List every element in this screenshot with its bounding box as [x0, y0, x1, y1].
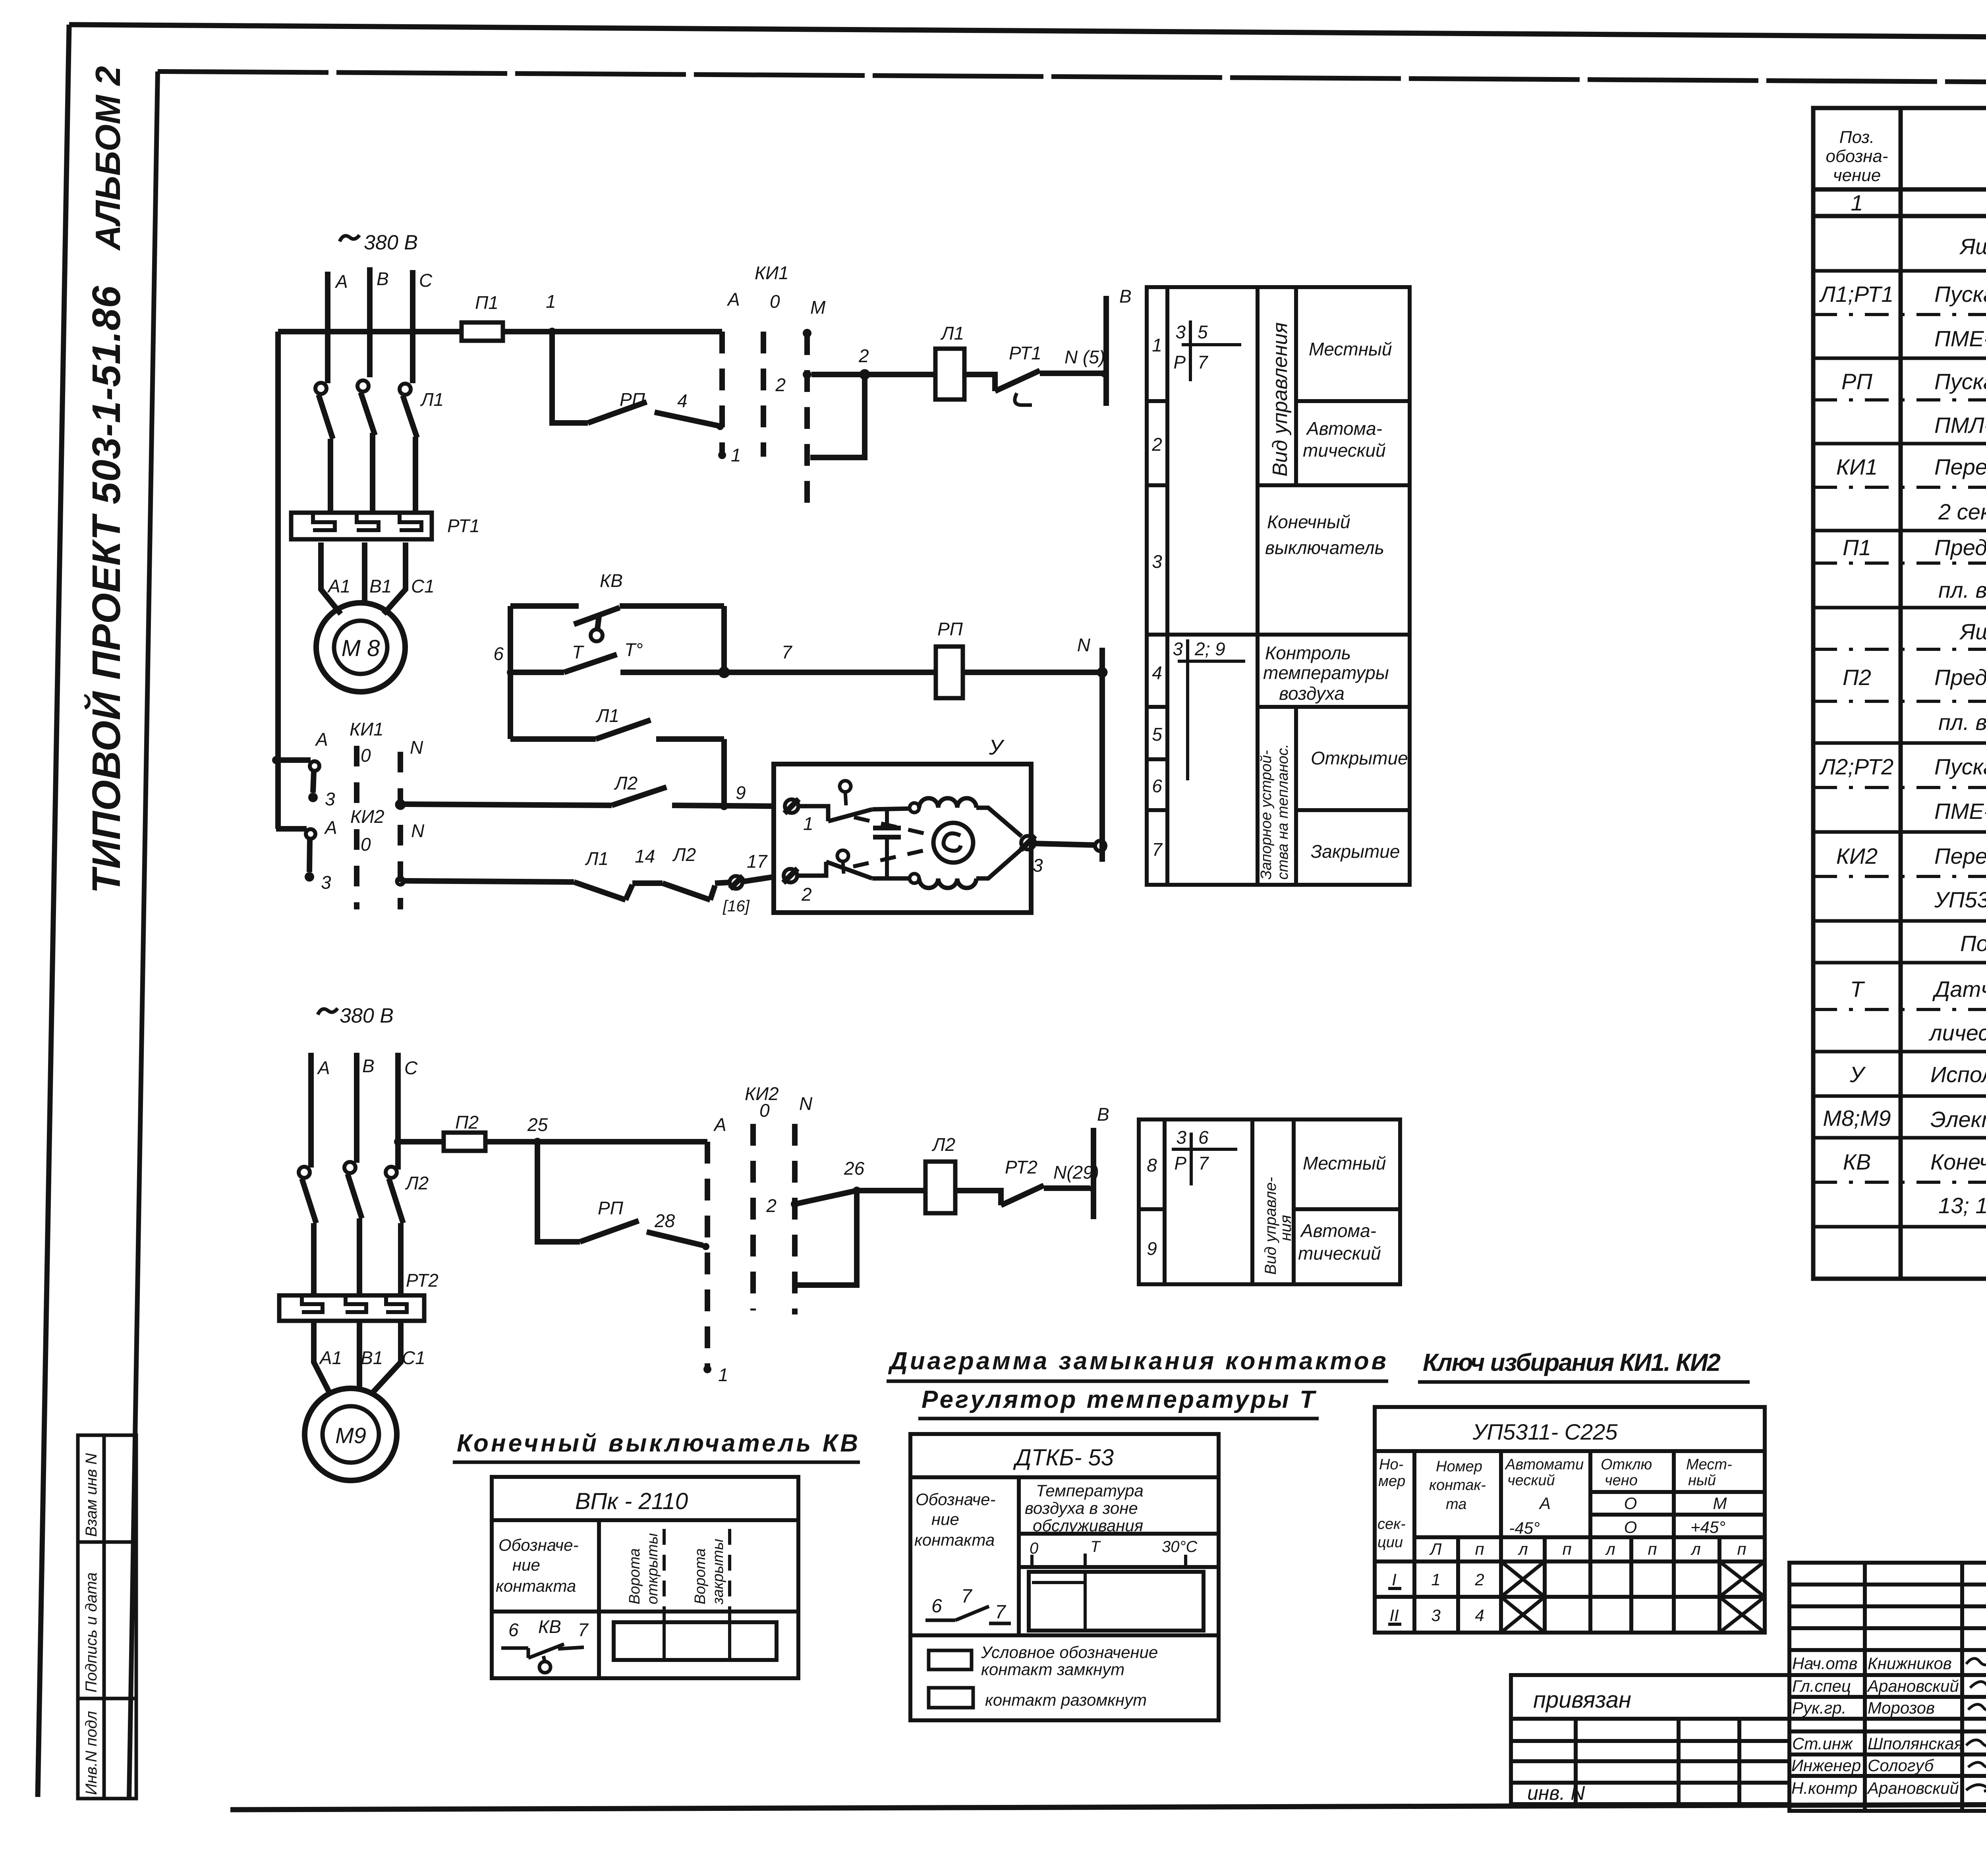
svg-text:контакта: контакта — [914, 1531, 995, 1549]
svg-text:Вид управления: Вид управления — [1269, 322, 1292, 477]
svg-text:Арановский: Арановский — [1866, 1779, 1959, 1797]
svg-text:Ворота: Ворота — [692, 1548, 709, 1604]
L1 coil — [935, 349, 964, 400]
node on C — [409, 328, 417, 336]
RP branch — [537, 1142, 580, 1242]
contactor L1 main contacts — [315, 383, 326, 394]
RT2 contact — [955, 1191, 1001, 1205]
svg-text:2: 2 — [1151, 434, 1162, 455]
X cells — [1501, 1561, 1765, 1633]
svg-text:7: 7 — [578, 1619, 589, 1640]
svg-text:Автома-: Автома- — [1300, 1220, 1376, 1241]
svg-text:Ящик управления 9Я (ЯУТ1-2): Ящик управления 9Я (ЯУТ1-2) — [1959, 619, 1986, 644]
svg-text:1: 1 — [718, 1365, 728, 1385]
svg-text:Нач.отв: Нач.отв — [1792, 1654, 1858, 1673]
svg-text:1: 1 — [731, 445, 741, 465]
svg-text:С1: С1 — [411, 576, 435, 596]
L1 aux contact row — [510, 736, 596, 742]
phase A (M9) — [308, 1053, 314, 1168]
svg-text:С1: С1 — [402, 1347, 425, 1368]
svg-text:Номер: Номер — [1436, 1458, 1482, 1475]
svg-text:Переключатель универсальный: Переключатель универсальный — [1934, 454, 1986, 479]
svg-text:В1: В1 — [361, 1347, 383, 1368]
svg-text:Переключатель универсальный: Переключатель универсальный — [1934, 843, 1986, 869]
svg-text:обозна-: обозна- — [1826, 147, 1888, 166]
svg-text:Т: Т — [572, 642, 584, 662]
svg-text:ТИПОВОЙ ПРОЕКТ 503-1-51.86: ТИПОВОЙ ПРОЕКТ 503-1-51.86 — [83, 286, 129, 894]
svg-text:Л1: Л1 — [420, 389, 444, 410]
svg-text:УП5311 - С225 2 секции: УП5311 - С225 2 секции — [1934, 887, 1986, 912]
svg-text:2; 9: 2; 9 — [1194, 639, 1225, 659]
svg-text:чено: чено — [1605, 1472, 1638, 1489]
svg-text:ный: ный — [1688, 1472, 1716, 1489]
svg-text:I: I — [1392, 1570, 1397, 1589]
svg-text:30°С: 30°С — [1162, 1538, 1198, 1556]
svg-text:Т°: Т° — [624, 639, 643, 660]
svg-text:Запорное устрой-: Запорное устрой- — [1258, 750, 1275, 880]
svg-text:А: А — [317, 1058, 330, 1078]
svg-text:У: У — [1849, 1062, 1866, 1087]
wire from U to N bus — [1035, 843, 1095, 845]
svg-text:Арановский: Арановский — [1866, 1677, 1959, 1695]
svg-text:7: 7 — [1152, 839, 1163, 860]
svg-text:7: 7 — [1198, 352, 1208, 372]
svg-text:Конечный: Конечный — [1267, 511, 1350, 532]
svg-text:В: В — [362, 1056, 375, 1076]
svg-text:А: А — [324, 817, 337, 838]
outer border left — [38, 25, 69, 1797]
svg-text:Конечный выключатель ВПК-211: Конечный выключатель ВПК-2110 — [1930, 1149, 1986, 1174]
wire: left feeder — [275, 332, 281, 829]
N dashed line — [792, 1124, 798, 1314]
svg-text:2: 2 — [766, 1195, 777, 1216]
svg-text:3: 3 — [1175, 322, 1186, 342]
svg-text:N(29): N(29) — [1053, 1162, 1099, 1183]
svg-text:КИ1: КИ1 — [1836, 454, 1878, 479]
svg-text:N: N — [799, 1093, 813, 1114]
svg-text:2 секции УП5311- С225: 2 секции УП5311- С225 — [1938, 499, 1986, 524]
svg-text:КВ: КВ — [538, 1616, 561, 1637]
svg-text:0: 0 — [361, 745, 371, 766]
svg-text:N: N — [1077, 635, 1091, 655]
svg-text:Т: Т — [1850, 977, 1865, 1002]
branch from node 2 down — [810, 378, 865, 457]
svg-text:М: М — [810, 297, 826, 318]
svg-text:6: 6 — [508, 1619, 519, 1640]
bottom contact row L1 14 L2 17 — [400, 881, 574, 882]
M dashed line — [804, 333, 810, 512]
svg-text:Л2: Л2 — [405, 1173, 429, 1193]
svg-text:14: 14 — [635, 846, 655, 867]
svg-text:ПМЕ-212 I н.т.р = 16 А кат.: ПМЕ-212 I н.т.р = 16 А кат. ~ 220 В — [1934, 326, 1986, 351]
svg-text:9: 9 — [736, 782, 746, 803]
svg-text:А: А — [726, 289, 740, 310]
svg-text:N: N — [411, 820, 425, 841]
L2 contact row — [400, 804, 612, 805]
svg-text:9: 9 — [1147, 1238, 1157, 1259]
svg-text:М 8: М 8 — [342, 635, 380, 661]
svg-text:ПМЕ-212 I н.т.р = 16 А кат.: ПМЕ-212 I н.т.р = 16 А кат. ~ 220 В. — [1934, 799, 1986, 824]
svg-text:380 В: 380 В — [340, 1004, 394, 1027]
svg-text:Л2: Л2 — [931, 1134, 955, 1155]
svg-text:А: А — [1538, 1494, 1551, 1513]
KV contact symbol — [508, 1616, 589, 1640]
svg-text:0: 0 — [1030, 1540, 1038, 1557]
svg-text:7: 7 — [1198, 1153, 1209, 1173]
svg-text:2: 2 — [1474, 1570, 1484, 1589]
selector KU2 — [276, 826, 307, 832]
svg-text:380 В: 380 В — [364, 231, 418, 254]
svg-text:В: В — [1097, 1104, 1109, 1125]
svg-text:II: II — [1389, 1606, 1399, 1625]
phase B — [367, 267, 373, 377]
svg-text:тический: тический — [1303, 440, 1386, 461]
svg-text:О: О — [1624, 1518, 1637, 1536]
svg-text:РТ1: РТ1 — [1009, 343, 1041, 363]
svg-text:Предохранитель ППТ-10 ~ 2: Предохранитель ППТ-10 ~ 250 В — [1934, 665, 1986, 690]
svg-text:Л1: Л1 — [595, 705, 619, 726]
svg-text:N (5): N (5) — [1064, 347, 1105, 367]
svg-text:та: та — [1446, 1496, 1466, 1513]
svg-text:Инв.N подл: Инв.N подл — [83, 1711, 100, 1795]
svg-text:1: 1 — [546, 291, 556, 312]
svg-text:Исполнительный механизм ПР-1: Исполнительный механизм ПР-1М — [1930, 1062, 1986, 1087]
wires to motor M9 — [314, 1321, 330, 1393]
svg-text:РТ2: РТ2 — [1005, 1157, 1037, 1177]
wire: bus to selector — [503, 329, 722, 334]
svg-text:закрыты: закрыты — [710, 1539, 726, 1605]
actuator box U — [774, 764, 1031, 913]
svg-text:1: 1 — [1152, 335, 1162, 355]
svg-text:1: 1 — [803, 813, 813, 834]
vertical stamp title — [83, 66, 129, 894]
svg-text:П1: П1 — [1843, 535, 1871, 560]
svg-text:3: 3 — [1176, 1127, 1186, 1148]
svg-text:Морозов: Морозов — [1868, 1698, 1935, 1717]
svg-text:5: 5 — [1152, 724, 1162, 745]
thermal relay RT1 — [291, 513, 432, 539]
svg-text:Л: Л — [1429, 1540, 1442, 1558]
svg-text:Ст.инж: Ст.инж — [1792, 1734, 1853, 1753]
svg-text:2: 2 — [775, 374, 786, 395]
phase B (M9) — [354, 1053, 359, 1163]
svg-text:-45°: -45° — [1509, 1519, 1540, 1537]
svg-text:УП5311- С225: УП5311- С225 — [1472, 1419, 1618, 1444]
DTKB legend — [929, 1650, 973, 1708]
svg-text:0: 0 — [770, 291, 780, 312]
svg-text:РП: РП — [937, 619, 963, 639]
svg-text:4: 4 — [1475, 1606, 1484, 1625]
U internals — [798, 806, 828, 821]
capacitor — [885, 809, 889, 828]
svg-text:8: 8 — [1147, 1155, 1157, 1175]
svg-text:Гл.спец: Гл.спец — [1792, 1677, 1851, 1695]
svg-text:Л1;РТ1: Л1;РТ1 — [1819, 282, 1894, 307]
svg-text:3: 3 — [1173, 639, 1183, 659]
svg-text:3: 3 — [325, 789, 335, 809]
svg-text:Ворота: Ворота — [626, 1548, 643, 1604]
svg-text:N: N — [410, 737, 423, 758]
svg-text:П1: П1 — [475, 292, 498, 313]
svg-text:Л2;РТ2: Л2;РТ2 — [1819, 754, 1894, 779]
svg-text:Л1: Л1 — [940, 323, 964, 344]
phase C (M9) — [395, 1053, 401, 1170]
svg-text:Конечный выключатель КВ: Конечный выключатель КВ — [457, 1430, 858, 1457]
dashed linkage — [854, 817, 935, 836]
svg-text:У: У — [989, 735, 1005, 759]
svg-text:РП: РП — [620, 389, 645, 410]
svg-text:РТ1: РТ1 — [447, 515, 480, 536]
svg-text:РП: РП — [1841, 369, 1872, 394]
svg-text:температуры: температуры — [1263, 662, 1389, 683]
N bus (mid) — [1099, 648, 1105, 862]
svg-text:открыты: открыты — [644, 1533, 661, 1604]
svg-text:В: В — [377, 268, 389, 289]
svg-text:Взам инв N: Взам инв N — [83, 1453, 100, 1537]
svg-text:[16]: [16] — [723, 897, 750, 915]
svg-text:ние: ние — [512, 1556, 540, 1574]
svg-text:4: 4 — [1152, 662, 1162, 683]
svg-text:КИ1: КИ1 — [350, 719, 384, 739]
svg-text:Поз.: Поз. — [1839, 127, 1875, 147]
svg-text:Книжников: Книжников — [1868, 1654, 1952, 1673]
svg-text:контакт разомкнут: контакт разомкнут — [985, 1691, 1147, 1709]
svg-text:4: 4 — [677, 390, 688, 411]
svg-text:Местный: Местный — [1309, 339, 1392, 359]
svg-text:тический: тический — [1298, 1243, 1381, 1264]
svg-text:контакт замкнут: контакт замкнут — [981, 1660, 1124, 1679]
svg-text:Ключ избирания КИ1. КИ2: Ключ избирания КИ1. КИ2 — [1423, 1349, 1721, 1376]
svg-text:3: 3 — [321, 872, 331, 893]
inner frame top — [158, 71, 1986, 85]
svg-text:Открытие: Открытие — [1311, 748, 1408, 768]
svg-text:лический 0÷30ºС ДТКБ- 53: лический 0÷30ºС ДТКБ- 53 — [1928, 1020, 1986, 1045]
wire 2-26 — [795, 1191, 857, 1204]
RP contact branch — [552, 332, 588, 423]
svg-text:По месту: По месту — [1960, 931, 1986, 956]
svg-text:6: 6 — [1198, 1127, 1209, 1148]
svg-text:Л1: Л1 — [585, 848, 609, 869]
svg-text:л: л — [1690, 1540, 1701, 1558]
fuse П1 — [462, 322, 503, 341]
svg-text:п: п — [1475, 1540, 1484, 1558]
svg-text:чение: чение — [1833, 166, 1881, 185]
svg-text:Пускатель магнитный: Пускатель магнитный — [1934, 754, 1986, 779]
svg-text:М8;М9: М8;М9 — [1823, 1106, 1891, 1131]
B bus (lower) — [1091, 1128, 1096, 1219]
svg-text:Диаграмма замыкания контакто: Диаграмма замыкания контактов — [888, 1347, 1386, 1375]
svg-text:РТ2: РТ2 — [406, 1270, 439, 1291]
0 dashed line KU2 — [750, 1124, 756, 1310]
svg-text:Сологуб: Сологуб — [1868, 1756, 1934, 1775]
svg-text:2: 2 — [801, 884, 812, 905]
svg-text:Пускатель магнитный: Пускатель магнитный — [1934, 369, 1986, 394]
signatures squiggles — [1966, 1651, 1986, 1791]
phase C — [410, 270, 415, 383]
svg-text:6: 6 — [931, 1596, 942, 1617]
svg-text:инв. N: инв. N — [1527, 1782, 1585, 1804]
svg-text:ДТКБ- 53: ДТКБ- 53 — [1013, 1445, 1114, 1471]
KV / T rows — [508, 606, 513, 739]
svg-text:2: 2 — [858, 345, 869, 366]
wires to motor M8 — [321, 542, 341, 614]
L2 coil — [925, 1162, 955, 1213]
small motor — [933, 823, 973, 863]
svg-text:Мест-: Мест- — [1686, 1456, 1732, 1473]
svg-text:ческий: ческий — [1507, 1472, 1555, 1489]
svg-text:ПМЛ-1100 кат. ~ 220 В.: ПМЛ-1100 кат. ~ 220 В. — [1934, 413, 1986, 438]
svg-text:Электродвигатель ~ 380 В: Электродвигатель ~ 380 В — [1930, 1107, 1986, 1132]
A dashed line — [705, 1142, 710, 1367]
svg-text:3: 3 — [1431, 1606, 1440, 1625]
svg-text:Ящик управления 8Я (ПУТ1: Ящик управления 8Я (ПУТ1-1) — [1959, 234, 1986, 259]
svg-text:Местный: Местный — [1303, 1153, 1386, 1173]
node 1 — [548, 328, 556, 336]
svg-text:Регулятор температуры Т: Регулятор температуры Т — [922, 1386, 1317, 1413]
svg-text:Автомати: Автомати — [1505, 1456, 1584, 1473]
svg-text:Датчик камерный биметал-: Датчик камерный биметал- — [1932, 977, 1986, 1002]
svg-text:ции: ции — [1377, 1534, 1403, 1551]
privyazan box — [1511, 1675, 1789, 1719]
svg-text:М: М — [1713, 1494, 1727, 1513]
svg-text:КВ: КВ — [600, 570, 623, 591]
svg-text:5: 5 — [1198, 322, 1208, 342]
svg-text:АЛЬБОМ 2: АЛЬБОМ 2 — [88, 66, 128, 251]
svg-text:0: 0 — [361, 834, 371, 855]
svg-text:ВПк - 2110: ВПк - 2110 — [575, 1488, 688, 1514]
svg-text:Контроль: Контроль — [1265, 643, 1351, 663]
svg-text:1: 1 — [1851, 190, 1863, 215]
A dashed selector line — [719, 332, 725, 457]
svg-text:26: 26 — [844, 1158, 865, 1179]
svg-text:Т: Т — [1090, 1538, 1101, 1556]
svg-text:Автома-: Автома- — [1306, 418, 1382, 439]
svg-text:13; 1р ~ 220 В.: 13; 1р ~ 220 В. — [1938, 1193, 1986, 1218]
svg-text:пл. вст. ВТФ- 6: пл. вст. ВТФ- 6 — [1938, 577, 1986, 602]
svg-text:3: 3 — [1152, 551, 1162, 572]
svg-text:привязан: привязан — [1533, 1687, 1631, 1713]
section titles — [457, 1347, 1721, 1457]
svg-text:Отклю: Отклю — [1601, 1456, 1652, 1473]
svg-text:Обозначе-: Обозначе- — [916, 1490, 995, 1509]
svg-text:л: л — [1517, 1540, 1528, 1558]
svg-text:С: С — [404, 1058, 418, 1078]
svg-text:+45°: +45° — [1690, 1518, 1725, 1536]
svg-text:Подпись и дата: Подпись и дата — [83, 1572, 100, 1693]
RT1 contact — [964, 374, 995, 391]
contactor L2 main contacts — [299, 1167, 310, 1178]
svg-text:контакта: контакта — [496, 1577, 576, 1595]
svg-text:Шполянская: Шполянская — [1868, 1734, 1963, 1753]
svg-text:А: А — [334, 271, 348, 292]
B bus top — [1103, 296, 1109, 406]
svg-text:мер: мер — [1378, 1473, 1405, 1490]
svg-text:28: 28 — [654, 1210, 675, 1231]
svg-text:Но-: Но- — [1379, 1456, 1403, 1473]
svg-text:7: 7 — [961, 1586, 973, 1607]
svg-text:А1: А1 — [327, 576, 350, 596]
svg-text:Р: Р — [1173, 352, 1186, 372]
svg-text:п: п — [1648, 1540, 1657, 1558]
inner frame bottom — [230, 1803, 1986, 1810]
svg-text:Л2: Л2 — [614, 773, 638, 793]
svg-text:сек-: сек- — [1377, 1516, 1406, 1532]
svg-text:л: л — [1605, 1540, 1615, 1558]
svg-text:В: В — [1119, 286, 1132, 307]
svg-text:Закрытие: Закрытие — [1311, 841, 1400, 862]
motor M8 — [316, 603, 405, 692]
svg-text:О: О — [1624, 1494, 1637, 1513]
svg-text:Обозначе-: Обозначе- — [498, 1536, 578, 1554]
svg-text:ства на тепланос.: ства на тепланос. — [1275, 744, 1291, 880]
svg-text:воздуха в зоне: воздуха в зоне — [1025, 1499, 1138, 1517]
svg-text:Рук.гр.: Рук.гр. — [1792, 1698, 1846, 1717]
svg-text:Предохранитель ППТ-10 ~ 250: Предохранитель ППТ-10 ~ 250 В — [1934, 535, 1986, 560]
thermal relay RT2 — [279, 1295, 424, 1321]
svg-text:Р: Р — [1174, 1153, 1186, 1173]
wire: top bus — [278, 329, 462, 334]
wire cross symbols — [1172, 320, 1245, 1185]
svg-text:25: 25 — [527, 1114, 548, 1135]
phase A — [325, 272, 330, 383]
svg-text:обслуживания: обслуживания — [1033, 1516, 1143, 1535]
svg-text:КИ2: КИ2 — [1836, 843, 1878, 869]
svg-text:пл. вст. 8ТФ- 6: пл. вст. 8ТФ- 6 — [1938, 710, 1986, 735]
svg-text:7: 7 — [782, 642, 792, 662]
svg-text:В1: В1 — [369, 576, 392, 596]
0 dashed line KU1 — [761, 332, 766, 457]
svg-text:ние: ние — [931, 1510, 959, 1529]
svg-text:выключатель: выключатель — [1265, 537, 1384, 558]
svg-text:КИ1: КИ1 — [755, 262, 789, 283]
wire 2 row — [803, 370, 811, 379]
svg-text:воздуха: воздуха — [1279, 683, 1345, 704]
svg-text:А: А — [315, 729, 328, 750]
svg-text:КВ: КВ — [1843, 1149, 1871, 1174]
svg-text:6: 6 — [493, 643, 504, 664]
svg-text:7: 7 — [995, 1602, 1007, 1623]
outer border top — [69, 25, 1986, 41]
svg-text:ния: ния — [1277, 1215, 1294, 1241]
svg-text:П2: П2 — [1843, 665, 1871, 690]
svg-text:п: п — [1737, 1540, 1746, 1558]
bottom-left inventory boxes — [78, 1435, 136, 1799]
svg-text:Пускатель магнитный: Пускатель магнитный — [1934, 282, 1986, 307]
svg-text:Условное обозначение: Условное обозначение — [981, 1643, 1158, 1662]
svg-text:17: 17 — [747, 851, 768, 872]
svg-text:п: п — [1562, 1540, 1571, 1558]
RP coil — [936, 647, 963, 698]
svg-text:6: 6 — [1152, 776, 1162, 796]
svg-text:Л2: Л2 — [672, 844, 696, 865]
motor M9 — [305, 1388, 397, 1480]
svg-text:Инженер: Инженер — [1791, 1756, 1861, 1775]
svg-text:П2: П2 — [455, 1112, 479, 1133]
svg-text:С: С — [419, 270, 433, 291]
svg-text:М9: М9 — [335, 1423, 366, 1448]
svg-text:КИ2: КИ2 — [350, 806, 384, 827]
inner frame left / strip divider — [129, 71, 158, 1799]
svg-text:1: 1 — [1431, 1570, 1440, 1589]
signature table — [1789, 1563, 1986, 1811]
branch 26 down to N — [795, 1191, 857, 1285]
svg-text:А1: А1 — [319, 1347, 342, 1368]
svg-text:0: 0 — [759, 1100, 770, 1121]
svg-text:Н.контр: Н.контр — [1791, 1779, 1857, 1797]
bus to fuse P2 — [398, 1139, 444, 1145]
svg-text:контак-: контак- — [1429, 1477, 1486, 1494]
selector KU1 — [272, 756, 280, 764]
